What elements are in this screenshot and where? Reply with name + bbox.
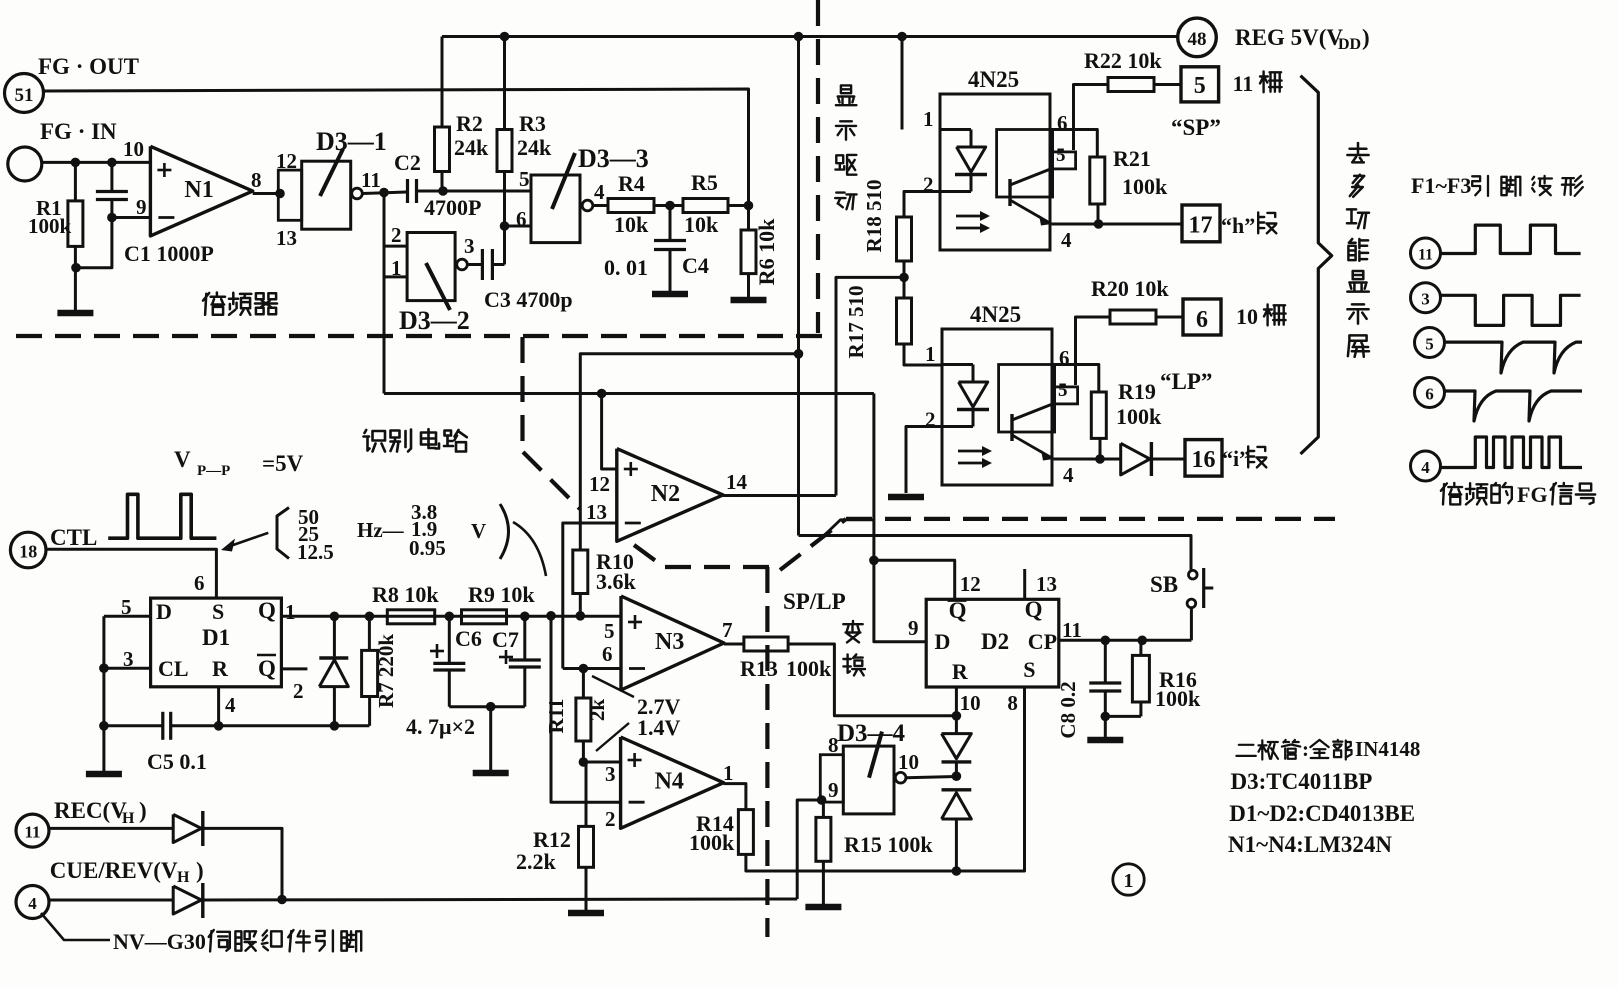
svg-text:SB: SB: [1150, 572, 1178, 597]
svg-text:D1~D2:CD4013BE: D1~D2:CD4013BE: [1229, 801, 1415, 826]
wire FG·OUT from terminal 51 to R5/R6 junction: [44, 89, 749, 206]
svg-text:2: 2: [391, 223, 402, 247]
wire pin6 D3-3: [505, 225, 532, 228]
svg-text:C6: C6: [455, 626, 482, 651]
waveform 6 sawtooth decay: [1444, 391, 1582, 421]
capacitor C8 0.2: [1104, 640, 1107, 681]
opening brace of Hz table: [277, 508, 289, 559]
note diodes all IN4148: [1236, 745, 1255, 756]
junction C5 wire: [99, 721, 109, 731]
svg-text:V: V: [174, 447, 191, 472]
junction R11 bottom / N4 + wire: [579, 757, 589, 767]
svg-text:D3—1: D3—1: [316, 127, 387, 156]
waveform terminal 5: [1415, 328, 1445, 358]
diode across R7 (cathode up): [333, 616, 336, 656]
wire C6/C7 bottoms: [449, 705, 525, 708]
svg-text:5: 5: [1194, 73, 1206, 99]
wire to D2 pin 12: [874, 560, 955, 599]
svg-text:Q: Q: [1025, 597, 1043, 622]
svg-text:CUE/REV(V: CUE/REV(V: [50, 858, 178, 883]
svg-text:2: 2: [293, 679, 304, 703]
LED inside 4N25: [940, 128, 971, 131]
crossover jog to D2 net: [824, 520, 874, 536]
diode to terminal 16: [1121, 443, 1150, 475]
svg-text:4N25: 4N25: [968, 67, 1019, 92]
svg-text:3: 3: [605, 762, 616, 786]
junction diode top: [330, 612, 340, 622]
junction R1 bottom: [71, 263, 81, 273]
phototransistor: [1008, 179, 1011, 206]
svg-text:R: R: [212, 656, 229, 681]
waveform 5 sawtooth decay: [1444, 342, 1582, 373]
ground below R1: [57, 310, 93, 317]
dashed boundary horizontal SP/LP top: [846, 517, 1335, 521]
wire R4 to R5: [654, 204, 683, 207]
junction C6 top: [445, 612, 455, 622]
svg-text:100k: 100k: [1122, 174, 1168, 199]
terminal box 6 (10-grid): [1183, 299, 1221, 335]
wire N4 output to R14: [724, 784, 746, 810]
phototransistor enclosure: [999, 365, 1055, 433]
svg-text:11: 11: [1062, 618, 1082, 642]
svg-text:10: 10: [898, 750, 919, 774]
dashed boundary vertical right of multiplier: [816, 0, 820, 333]
pointer line from terminal 4: [41, 913, 110, 940]
svg-text:100k: 100k: [1155, 686, 1201, 711]
wire CUE to diode: [49, 899, 173, 902]
svg-text:H: H: [122, 810, 135, 827]
waveform terminal 4: [1411, 451, 1441, 481]
wire D3-4 output to diode midpoint: [906, 777, 957, 778]
junction on D2 R wire: [952, 711, 962, 721]
svg-text:8: 8: [1007, 691, 1018, 715]
junction C1 bottom on N1 - wire: [107, 213, 117, 223]
svg-text:13: 13: [276, 226, 297, 250]
dashed diagonal up to SP/LP border: [780, 519, 846, 570]
svg-text:17: 17: [1189, 213, 1213, 239]
label 变换 vertical: [843, 621, 862, 642]
dashed boundary of recognition circuit vertical: [520, 337, 524, 447]
svg-text:P—P: P—P: [197, 463, 230, 479]
svg-text:R13: R13: [740, 656, 778, 681]
opto2 pin5 wire up to R20 net: [1076, 317, 1111, 385]
svg-text:4N25: 4N25: [970, 302, 1021, 327]
svg-text:N2: N2: [651, 481, 680, 507]
svg-text:D3—2: D3—2: [399, 306, 470, 335]
resistor R3 24k: [503, 37, 506, 130]
svg-text:10k: 10k: [614, 212, 649, 237]
label 识别电路 (recognition circuit): [364, 430, 386, 452]
svg-text:12.5: 12.5: [297, 540, 334, 564]
phototransistor enclosure: [997, 130, 1053, 198]
capacitor C6 4.7u electrolytic: [448, 616, 451, 662]
vertical supply wire x798.5: [797, 37, 800, 536]
svg-text:10: 10: [960, 691, 981, 715]
svg-text:CP: CP: [1028, 629, 1057, 654]
svg-text:S: S: [212, 599, 224, 624]
svg-text:3: 3: [1421, 290, 1430, 309]
svg-text:R15 100k: R15 100k: [844, 832, 933, 857]
junction REC joins CUE: [277, 895, 287, 905]
terminal box 5 (11-grid): [1181, 67, 1219, 102]
svg-text:18: 18: [19, 542, 37, 562]
svg-text:1: 1: [923, 107, 934, 131]
resistor R11 2k: [582, 669, 585, 699]
svg-text:=5V: =5V: [262, 451, 304, 476]
vertical wire D/CL to ground: [102, 616, 105, 771]
junction N4 feedback: [546, 611, 556, 621]
svg-text:Hz—: Hz—: [357, 518, 405, 542]
svg-text:CTL: CTL: [50, 525, 97, 550]
wire D2 R pin down to diodes: [955, 687, 958, 734]
svg-text:R7 220k: R7 220k: [374, 634, 398, 708]
junction R3 line at D3-3 pin 6: [500, 221, 510, 231]
label 倍频器 (frequency multiplier): [203, 293, 225, 315]
waveform 3 square wave inverted: [1441, 295, 1581, 325]
callout arrow to Hz table: [226, 533, 268, 548]
supply feed wire y354: [580, 354, 798, 550]
wire N2 output to opto drive: [723, 494, 836, 497]
wire N3 - input from N2 - net: [563, 667, 621, 670]
svg-text:1: 1: [391, 256, 402, 280]
op-amp N3: [621, 596, 724, 690]
nand gate D3-3: [531, 175, 580, 243]
svg-text:R19: R19: [1118, 379, 1156, 404]
junction R7 top: [365, 612, 375, 622]
junction C4 top: [665, 201, 675, 211]
wire opto2 pin2 to ground: [906, 427, 942, 494]
resistor R12 2.2k: [585, 762, 588, 826]
terminal box 17 (h segment): [1182, 205, 1220, 242]
svg-text:1: 1: [925, 342, 936, 366]
resistor R13 100k: [744, 637, 788, 651]
figure number 1 circled: [1113, 864, 1144, 895]
svg-text:R: R: [952, 659, 969, 684]
junction R19 bottom on opto2 pin4 wire: [1095, 454, 1105, 464]
capacitor C5 0.1: [104, 724, 162, 727]
svg-text:R22 10k: R22 10k: [1084, 48, 1162, 73]
waveform terminal 3: [1411, 283, 1441, 313]
svg-text:4: 4: [1061, 228, 1072, 252]
svg-text:0. 01: 0. 01: [604, 255, 648, 280]
svg-text:4: 4: [1063, 463, 1074, 487]
svg-text:D3:TC4011BP: D3:TC4011BP: [1231, 769, 1373, 794]
wire to D3-2 pin 1: [384, 246, 407, 277]
top supply rail wire: [442, 35, 1178, 38]
junction at D3-1 input: [275, 189, 285, 199]
svg-text:6: 6: [194, 571, 205, 595]
svg-text:2k: 2k: [585, 699, 609, 722]
wire REC to diode: [49, 827, 173, 830]
ground below C4: [652, 291, 688, 298]
svg-text:REC(V: REC(V: [54, 798, 127, 823]
junction C8: [1101, 636, 1111, 646]
svg-text:Q: Q: [258, 598, 276, 623]
wire SB bottom contact down to CP net: [1190, 608, 1193, 641]
terminal box 16 (i segment): [1185, 440, 1222, 477]
wire R17 to opto2 pin1: [904, 344, 942, 365]
terminal 4 CUE: [16, 886, 49, 919]
svg-text:H: H: [177, 869, 190, 886]
wire C8 to R16 bottom: [1105, 715, 1141, 718]
wire junction to N2 output vertical: [836, 277, 904, 495]
junction R18/R17/N2out: [899, 273, 909, 283]
diode CUE: [173, 886, 201, 914]
svg-text:D: D: [935, 629, 951, 654]
wire opto1 pin4 to terminal 17: [1052, 223, 1182, 226]
terminal 18 CTL: [10, 532, 46, 568]
waveform terminal 11: [1411, 238, 1441, 268]
svg-text:2: 2: [605, 807, 616, 831]
junction between diodes at D3-4 output: [952, 771, 962, 781]
svg-text:C2: C2: [394, 150, 421, 175]
wire R1/C1 bottom to ground: [74, 268, 77, 311]
svg-text:11: 11: [361, 168, 381, 192]
junction C7 top: [520, 612, 530, 622]
resistor R19 100k: [1091, 392, 1106, 438]
phototransistor: [1010, 414, 1013, 441]
pin 5 tab box: [1055, 387, 1078, 404]
resistor R1 100k: [74, 162, 77, 201]
svg-text:N1~N4:LM324N: N1~N4:LM324N: [1228, 832, 1392, 857]
waveform 11 square wave: [1441, 225, 1581, 253]
resistor R9 10k: [462, 610, 507, 624]
resistor R20 10k: [1110, 310, 1156, 324]
svg-text:R8 10k: R8 10k: [372, 582, 439, 607]
junction to N2 + input: [597, 389, 607, 399]
svg-text:S: S: [1023, 657, 1035, 682]
junction on FG·IN wire at R1: [71, 158, 81, 168]
svg-text:2.2k: 2.2k: [516, 849, 557, 874]
wire R20 to terminal 6: [1156, 316, 1183, 319]
brace to multi-function display: [1301, 76, 1332, 454]
svg-text:F1~F3: F1~F3: [1411, 173, 1471, 198]
svg-text:D3—4: D3—4: [837, 720, 906, 747]
svg-text:12: 12: [276, 149, 297, 173]
wire D3-3 output to R4: [593, 204, 608, 207]
wire C1 bottom down to R1 bottom: [75, 218, 112, 268]
dashed boundary vertical x767: [765, 567, 769, 937]
pin 13 stub D2: [1023, 569, 1026, 599]
svg-text:CL: CL: [158, 656, 189, 681]
wire D2 CP pin to SB: [1059, 639, 1192, 642]
wire D1 CL input: [104, 667, 151, 670]
nand gate D3-2: [407, 233, 455, 301]
wire FG·IN to N1 + input: [42, 161, 151, 164]
light arrows: [956, 215, 980, 218]
svg-text:24k: 24k: [454, 135, 489, 160]
wire opto2 pin4 emitter: [1054, 458, 1121, 461]
capacitor C3 4700p: [467, 263, 481, 266]
diode D pair lower (pointing up): [942, 788, 972, 791]
junction D3-1 output: [379, 188, 389, 198]
svg-text:10: 10: [1236, 304, 1258, 329]
svg-text:C1 1000P: C1 1000P: [124, 241, 214, 266]
CTL pulse waveform: [108, 494, 216, 538]
flip-flop D2 box: [926, 599, 1059, 687]
wire D3-1 out down to D3-2 inputs and recognition circuit: [384, 193, 407, 247]
svg-text:1.4V: 1.4V: [637, 715, 681, 740]
resistor R8 10k: [387, 610, 434, 624]
wire R14 bottom to D2 S pin: [746, 687, 1025, 871]
svg-text:10: 10: [123, 137, 144, 161]
svg-text:4. 7μ×2: 4. 7μ×2: [406, 714, 475, 739]
ground below R15: [805, 904, 841, 911]
wire N1 output to gate D3-1: [253, 192, 279, 195]
resistor R2 24k: [441, 37, 444, 128]
terminal 48 REG 5V: [1178, 18, 1217, 57]
ground below D1 input wire: [86, 771, 122, 778]
dashed boundary bottom of multiplier section: [16, 334, 822, 338]
curved annotation arrow to N3 node: [513, 522, 546, 576]
wire N3 output to R13: [724, 643, 744, 646]
junction top rail x798.5: [794, 32, 804, 42]
diode REC: [173, 814, 201, 842]
svg-text:12: 12: [960, 572, 981, 596]
ground below C6/C7: [473, 770, 509, 777]
wire CTL to D1 S pin: [46, 549, 216, 597]
svg-text:REG 5V(V: REG 5V(V: [1235, 25, 1343, 50]
svg-text:6: 6: [1059, 346, 1070, 370]
svg-text:R9 10k: R9 10k: [468, 582, 535, 607]
waveform terminal 6: [1415, 378, 1445, 408]
opto1 pin5 wire up to R22 net: [1074, 85, 1109, 151]
junction x798 y354: [794, 349, 804, 359]
waveform 4 fast square wave: [1440, 437, 1582, 468]
ground below opto2 pin2: [888, 494, 924, 501]
op-amp N1: [150, 146, 252, 236]
svg-text:“LP”: “LP”: [1160, 369, 1212, 394]
svg-text:4: 4: [28, 894, 37, 913]
resistor R16 100k: [1139, 640, 1142, 655]
junction top rail to opto1: [897, 32, 907, 42]
nand gate D3-4: [820, 755, 843, 802]
svg-text:SP/LP: SP/LP: [783, 589, 846, 614]
junction D1 R pin wire: [214, 721, 224, 731]
junction D2 clock branch: [869, 556, 879, 566]
svg-text:5: 5: [1056, 145, 1066, 166]
svg-text:“h”: “h”: [1221, 213, 1255, 238]
callout 1.4V: [596, 723, 629, 751]
wire D3-2 pin1 down to long horizontal: [383, 277, 386, 394]
wire D1 Qbar stub: [281, 667, 307, 670]
ground below C8: [1087, 737, 1123, 744]
svg-text:100k: 100k: [786, 656, 832, 681]
resistor R5 10k: [683, 199, 728, 213]
svg-text:D1: D1: [202, 625, 230, 650]
svg-text:N1: N1: [184, 177, 213, 203]
svg-text:R20 10k: R20 10k: [1091, 276, 1169, 301]
svg-text:7: 7: [722, 618, 733, 642]
svg-text:Q: Q: [258, 656, 276, 681]
svg-text:R18 510: R18 510: [862, 180, 886, 253]
LED inside 4N25: [942, 363, 973, 366]
junction R5/R6/FGOUT: [744, 201, 754, 211]
svg-text:R5: R5: [691, 170, 718, 195]
svg-text:5: 5: [1425, 335, 1434, 354]
svg-text:8: 8: [251, 168, 262, 192]
svg-text:NV—G30: NV—G30: [113, 929, 206, 954]
terminal 51 (FG·OUT): [5, 74, 44, 113]
svg-text:FG · IN: FG · IN: [40, 119, 117, 144]
junction R11 top: [579, 664, 589, 674]
svg-text:3: 3: [464, 234, 475, 258]
junction on FG·IN wire at C1: [107, 158, 117, 168]
vertical net into D2 D pin: [874, 394, 926, 642]
wire C1 bottom to N1 - input: [112, 216, 150, 219]
capacitor C1 1000P: [110, 162, 113, 190]
svg-text:N3: N3: [655, 629, 684, 655]
svg-text:100k: 100k: [1116, 404, 1162, 429]
resistor R6 10k: [747, 206, 750, 231]
svg-text:0.95: 0.95: [409, 536, 446, 560]
svg-text:6: 6: [516, 207, 527, 231]
svg-text:9: 9: [136, 195, 147, 219]
svg-text:FG: FG: [1517, 482, 1548, 507]
svg-text:5: 5: [519, 167, 530, 191]
op-amp N2: [617, 449, 723, 542]
svg-text:): ): [196, 858, 204, 883]
svg-text::: :: [1302, 737, 1309, 761]
junction R21 bottom on pin4 wire: [1094, 219, 1104, 229]
svg-text:V: V: [471, 519, 486, 543]
dashed boundary diagonal: [523, 452, 580, 509]
svg-text:C4: C4: [682, 253, 709, 278]
terminal 11 REC: [16, 814, 49, 847]
resistor R22 10k: [1108, 78, 1154, 92]
svg-text:D3—3: D3—3: [578, 144, 649, 173]
optocoupler 4N25 body: [942, 329, 1052, 485]
svg-text:4: 4: [594, 180, 605, 204]
wire top rail down to opto1 pin 1: [901, 37, 904, 130]
svg-text:12: 12: [589, 472, 610, 496]
svg-text:R21: R21: [1113, 146, 1151, 171]
diode D pair upper (pointing down): [942, 734, 972, 759]
svg-text:11: 11: [24, 823, 40, 842]
svg-text:R6 10k: R6 10k: [754, 218, 779, 285]
svg-text:16: 16: [1192, 447, 1216, 473]
svg-text:“SP”: “SP”: [1171, 115, 1221, 140]
wire R22 to terminal 5: [1154, 83, 1181, 86]
nand gate D3-1: [278, 170, 301, 220]
resistor R4 10k: [608, 199, 654, 213]
svg-text:48: 48: [1188, 29, 1207, 50]
svg-text:6: 6: [1196, 307, 1208, 333]
svg-text:): ): [1362, 25, 1370, 50]
junction C8/R16 bottom: [1101, 712, 1111, 722]
closing brace of Hz table: [500, 504, 509, 559]
wire R5 right to R6: [728, 204, 749, 207]
svg-text:9: 9: [908, 616, 919, 640]
svg-text:11: 11: [1233, 71, 1254, 96]
op-amp N4: [621, 737, 724, 828]
svg-text:100k: 100k: [28, 214, 72, 238]
svg-text:1: 1: [1124, 870, 1134, 892]
capacitor C4 0.01: [669, 206, 672, 240]
svg-text:4: 4: [1421, 458, 1430, 477]
wire D1 Q output to comparators: [281, 615, 621, 618]
label 去多功能显示屏 vertical: [1347, 143, 1368, 162]
resistor R10 3.6k: [573, 550, 588, 594]
svg-text:C3 4700p: C3 4700p: [484, 287, 573, 312]
junction R16: [1137, 636, 1147, 646]
svg-text:1: 1: [285, 600, 296, 624]
svg-text:13: 13: [586, 500, 607, 524]
wire REC diode to CUE net: [203, 828, 282, 899]
wire to N4 + input: [583, 761, 620, 764]
opto1 pin6 wire to R21: [1050, 130, 1097, 158]
svg-text:1: 1: [723, 761, 734, 785]
